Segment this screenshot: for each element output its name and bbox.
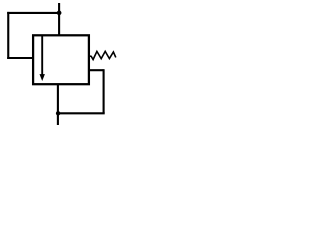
wire: inlet port line P (top)	[58, 3, 60, 36]
wire: drain/pilot line bottom (horizontal to outlet junction)	[58, 112, 105, 114]
wire: pilot line loop (left vertical)	[7, 12, 9, 59]
wire: outlet port line A (bottom)	[57, 84, 59, 125]
junction dot at outlet	[56, 111, 60, 115]
wire: drain/pilot line right (horizontal from envelope)	[89, 69, 104, 71]
wire: pilot line loop (top horizontal)	[7, 12, 59, 14]
flow path arrow shaft (vertical, inside envelope)	[41, 36, 43, 76]
spring (zigzag, right side of envelope)	[89, 51, 116, 59]
junction dot at inlet pilot tap	[57, 11, 62, 16]
wire: pilot line loop (lower horizontal into valve left side)	[7, 57, 33, 59]
flow path arrowhead (pointing down)	[40, 74, 45, 81]
valve envelope (body square)	[33, 35, 89, 84]
wire: drain/pilot line right (vertical down)	[103, 69, 105, 113]
